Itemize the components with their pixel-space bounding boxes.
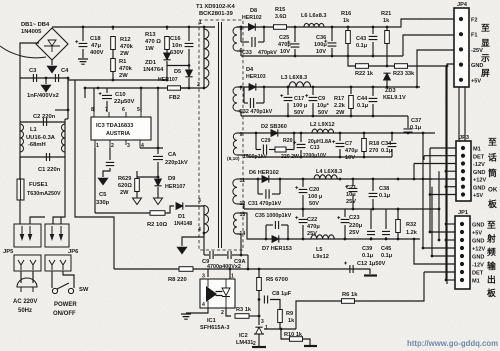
wire [140, 147, 163, 149]
wire [344, 225, 346, 239]
svg-text:0.1μ: 0.1μ [357, 103, 369, 109]
wire R1 bottom [112, 72, 114, 80]
wire [95, 212, 150, 214]
JP3 pin GND [461, 169, 465, 173]
svg-text:D6 HER102: D6 HER102 [249, 170, 279, 176]
wire pin7 [237, 86, 240, 88]
svg-text:1k: 1k [383, 18, 390, 24]
svg-text:0.1μ: 0.1μ [379, 193, 391, 199]
wire [248, 156, 392, 158]
svg-text:3: 3 [202, 274, 205, 280]
wire pin6 jog [237, 51, 241, 56]
wire [414, 239, 455, 264]
wire [258, 291, 260, 325]
wire [157, 187, 159, 198]
svg-text:屏: 屏 [481, 68, 490, 78]
wire C8 to R9 [270, 300, 280, 310]
wire [182, 233, 204, 246]
svg-text:(8,10): (8,10) [227, 156, 240, 162]
wire [84, 88, 86, 98]
svg-text:C23: C23 [349, 215, 360, 221]
JP6 lower socket [45, 255, 71, 271]
svg-text:R15: R15 [275, 7, 285, 13]
svg-text:25V: 25V [349, 230, 359, 236]
svg-text:DET: DET [472, 271, 484, 277]
wire [372, 42, 374, 56]
svg-text:C35 1000p1kV: C35 1000p1kV [255, 213, 292, 219]
wire [385, 237, 387, 239]
svg-text:2: 2 [111, 143, 114, 149]
svg-text:筒: 筒 [488, 167, 497, 178]
wire [422, 133, 424, 248]
wire [30, 217, 45, 224]
svg-text:FUSE1: FUSE1 [29, 182, 48, 188]
wire [52, 26, 215, 28]
svg-text:C1 220n: C1 220n [38, 167, 61, 173]
svg-text:HER107: HER107 [158, 77, 178, 83]
svg-text:470μ: 470μ [307, 224, 320, 230]
svg-text:470μ: 470μ [345, 148, 358, 154]
wire [352, 194, 354, 209]
svg-text:射: 射 [486, 233, 496, 244]
wire [265, 225, 267, 239]
svg-text:100 μ: 100 μ [308, 194, 323, 200]
svg-text:C29: C29 [261, 138, 271, 144]
svg-text:L9x12: L9x12 [313, 254, 329, 260]
diode D6 HER102 [262, 176, 269, 183]
secondary winding 13-14 [234, 213, 238, 234]
wire [240, 204, 244, 209]
wire R3 right [249, 315, 259, 317]
svg-text:+5V: +5V [471, 78, 481, 84]
wire [244, 208, 420, 210]
wire [445, 66, 447, 280]
svg-text:D7 HER153: D7 HER153 [262, 246, 292, 252]
wire [344, 209, 346, 217]
wire [240, 178, 432, 180]
primary spine [203, 27, 205, 88]
svg-text:1N4148: 1N4148 [174, 221, 192, 227]
svg-text:R21: R21 [381, 11, 391, 17]
wire [244, 102, 248, 104]
wire [45, 78, 47, 84]
svg-text:0.1μ: 0.1μ [381, 148, 393, 154]
IC3 pin stubs top [94, 112, 141, 117]
wire [302, 195, 304, 209]
IC1 photodiode [222, 288, 230, 296]
connector JP1 box [455, 216, 470, 289]
JP4 pin GND [459, 63, 463, 67]
wire [264, 328, 296, 330]
wire [287, 87, 289, 95]
svg-text:C7: C7 [345, 141, 352, 147]
svg-text:4: 4 [198, 227, 201, 233]
svg-text:330p: 330p [96, 200, 110, 206]
wire [51, 271, 53, 288]
svg-text:显: 显 [481, 38, 490, 48]
wire [272, 193, 280, 195]
wire [166, 50, 168, 53]
wire [446, 186, 456, 188]
wire [243, 87, 245, 103]
JP5 arrows [22, 226, 30, 238]
wire [263, 27, 265, 42]
JP3 pin DET [461, 154, 465, 158]
svg-text:IC2: IC2 [239, 333, 248, 339]
wire ZD1 bottom [166, 61, 168, 80]
JP3 pin +5V [461, 192, 465, 196]
svg-text:2: 2 [221, 310, 224, 316]
svg-text:6: 6 [122, 107, 125, 113]
svg-text:1.2k: 1.2k [406, 230, 418, 236]
svg-text:470 Ω: 470 Ω [145, 39, 161, 45]
wire [166, 27, 168, 30]
svg-text:2W: 2W [336, 110, 345, 116]
wire [363, 133, 365, 138]
svg-text:D9: D9 [168, 176, 176, 182]
svg-text:D5: D5 [174, 69, 181, 75]
svg-text:C18: C18 [90, 36, 101, 42]
JP4 pin F2 [459, 17, 463, 21]
secondary winding 7-None [233, 87, 237, 111]
svg-text:ZD1: ZD1 [145, 60, 157, 66]
wire [136, 191, 138, 198]
svg-text:50V: 50V [309, 201, 319, 207]
capacitor C8 1uF [264, 296, 267, 304]
svg-text:R12: R12 [120, 37, 131, 43]
svg-text:R629: R629 [118, 176, 131, 182]
svg-text:板: 板 [488, 198, 497, 209]
svg-text:SW: SW [79, 287, 89, 293]
wire [241, 115, 408, 117]
secondary winding 11-12 [233, 179, 237, 204]
wire [68, 79, 167, 81]
connector JP3 box [456, 141, 471, 201]
wire [279, 179, 281, 194]
resistor R2 10 [150, 211, 165, 216]
wire [446, 66, 448, 284]
resistor R10 1k [290, 337, 303, 342]
wire [181, 87, 205, 89]
svg-text:示: 示 [480, 53, 490, 63]
svg-text:DB1~ DB4: DB1~ DB4 [21, 22, 50, 28]
bridge rectifier DB1-DB4 [36, 28, 68, 60]
svg-text:C21: C21 [346, 185, 356, 191]
svg-text:BCK2801-39: BCK2801-39 [199, 11, 234, 17]
svg-text:LM431: LM431 [236, 340, 253, 346]
svg-text:JP3: JP3 [459, 135, 469, 141]
svg-text:KEL9.1V: KEL9.1V [383, 95, 406, 101]
svg-text:C20: C20 [309, 187, 319, 193]
svg-text:-12V: -12V [473, 162, 485, 168]
secondary winding 9-None [233, 133, 237, 155]
wire [300, 150, 302, 157]
svg-text:100 μ: 100 μ [293, 103, 308, 109]
wire [258, 193, 263, 195]
svg-text:630V: 630V [170, 50, 184, 56]
bridge diode symbol [44, 40, 60, 46]
svg-text:C9: C9 [318, 96, 325, 102]
inductor L6 [304, 23, 324, 27]
wire [350, 109, 352, 116]
wire [203, 233, 205, 255]
wire [240, 132, 435, 134]
wire [348, 56, 447, 66]
svg-text:D8: D8 [250, 8, 257, 14]
svg-text:1W: 1W [145, 46, 154, 52]
svg-text:25V: 25V [346, 199, 356, 205]
secondary winding 5-6 [233, 27, 237, 51]
wire [403, 35, 461, 56]
wire [64, 119, 66, 157]
svg-text:R23 33k: R23 33k [393, 71, 415, 77]
wire [20, 271, 22, 283]
wire [186, 308, 208, 313]
wire [414, 163, 456, 165]
svg-text:R9: R9 [286, 311, 293, 317]
svg-text:JP4: JP4 [457, 2, 468, 8]
wire pin13 [237, 212, 240, 214]
wire [458, 87, 460, 141]
capacitor C29 [263, 145, 266, 155]
wire [430, 147, 456, 149]
svg-text:输: 输 [487, 260, 496, 271]
wire [331, 48, 333, 56]
svg-text:R5 6700: R5 6700 [266, 277, 288, 283]
svg-text:470k: 470k [119, 66, 133, 72]
wire [281, 329, 289, 339]
svg-text:C38: C38 [379, 186, 389, 192]
svg-text:C32 470p1kV: C32 470p1kV [239, 109, 273, 115]
svg-text:+5V: +5V [473, 193, 483, 199]
svg-text:IC3 TDA16833: IC3 TDA16833 [96, 123, 133, 129]
ferrite bead FB2 [168, 86, 181, 90]
svg-text:10V: 10V [345, 155, 355, 161]
wire IC2 cathode... anode [258, 334, 260, 346]
wire [296, 301, 341, 329]
wire [300, 133, 302, 142]
wire [214, 254, 227, 256]
svg-text:1: 1 [231, 274, 234, 280]
wire [423, 247, 455, 249]
wire [137, 176, 158, 178]
svg-text:GND: GND [473, 185, 485, 191]
wire [136, 171, 138, 179]
ground D9 [154, 198, 163, 205]
wire [19, 200, 21, 224]
wire [240, 155, 248, 157]
svg-text:至: 至 [487, 220, 496, 230]
wire [257, 179, 259, 194]
wire [53, 157, 65, 224]
wire [372, 179, 374, 191]
svg-text:OK: OK [488, 187, 498, 194]
JP3 pin +12V [461, 177, 465, 181]
svg-text:2.2k: 2.2k [334, 103, 346, 109]
svg-text:C44: C44 [357, 96, 368, 102]
JP1 pin +5V [460, 230, 464, 234]
wire [417, 50, 461, 87]
wire [237, 111, 241, 116]
wire [94, 148, 96, 213]
wire [424, 271, 455, 273]
svg-text:C34: C34 [381, 141, 392, 147]
diode D4 HER103 [249, 84, 256, 91]
svg-text:板: 板 [487, 287, 496, 298]
svg-text:R8 220: R8 220 [168, 277, 187, 283]
wire [112, 27, 114, 30]
svg-text:3: 3 [198, 198, 201, 204]
ground C5 [98, 178, 108, 185]
wire [424, 155, 456, 157]
svg-text:F1: F1 [471, 33, 478, 39]
JP1 pin GND [460, 254, 464, 258]
svg-text:620Ω: 620Ω [118, 183, 132, 189]
wire [19, 157, 21, 179]
wire [269, 149, 276, 151]
JP1 pin GND [460, 238, 464, 242]
svg-text:UU16-0.3A: UU16-0.3A [26, 135, 56, 141]
svg-text:C4: C4 [61, 68, 69, 74]
svg-text:C10: C10 [115, 92, 126, 98]
svg-text:http://www.go-gddq.com: http://www.go-gddq.com [407, 339, 498, 348]
svg-text:R3 1k: R3 1k [236, 307, 252, 313]
svg-text:C25: C25 [279, 35, 289, 41]
wire [51, 60, 53, 65]
wire [303, 339, 311, 345]
ground IC1 [181, 314, 191, 319]
diode D8 HER102 [249, 24, 256, 31]
JP1 pin DET [460, 270, 464, 274]
wire [294, 49, 296, 56]
svg-text:HER107: HER107 [165, 184, 185, 190]
resistor R20 [275, 147, 286, 152]
wire [157, 88, 159, 148]
wire [232, 254, 248, 256]
wire [347, 44, 349, 56]
wire [391, 133, 393, 141]
wire [438, 171, 440, 240]
svg-text:至: 至 [481, 23, 490, 33]
svg-text:L6 L6x8.3: L6 L6x8.3 [301, 13, 327, 19]
wire [432, 255, 455, 257]
svg-text:2: 2 [253, 341, 256, 347]
JP1 pin M1 [460, 278, 464, 282]
svg-text:话: 话 [488, 152, 497, 163]
svg-text:JP6: JP6 [68, 249, 79, 255]
svg-text:5: 5 [137, 107, 140, 113]
svg-text:0.1μ: 0.1μ [381, 253, 393, 259]
svg-text:M1: M1 [473, 147, 481, 153]
wire [312, 87, 314, 95]
svg-text:HER102: HER102 [242, 15, 262, 21]
svg-text:1: 1 [199, 20, 202, 26]
JP4 pin -25V [459, 47, 463, 51]
resistor R8 220 [179, 267, 193, 272]
scan crease curve [0, 46, 46, 58]
svg-text:10V: 10V [316, 49, 326, 55]
wire [82, 49, 84, 58]
wire [247, 255, 249, 269]
svg-text:GND: GND [473, 170, 485, 176]
svg-text:R10 1k: R10 1k [284, 332, 303, 338]
IC1 light bars [216, 292, 223, 296]
JP6 arrows [52, 226, 61, 238]
wire [302, 209, 304, 217]
ground C3C4 [41, 85, 51, 92]
wire [204, 254, 209, 256]
svg-text:100μ: 100μ [314, 42, 327, 48]
wire [350, 87, 352, 94]
transformer dashed box [199, 20, 243, 250]
wire R6 to DET [355, 272, 425, 301]
svg-text:22μ50V: 22μ50V [114, 99, 134, 105]
wire [352, 179, 354, 186]
svg-text:L2 L9X12: L2 L9X12 [310, 122, 335, 128]
svg-text:C5: C5 [99, 192, 107, 198]
svg-text:C31 470p1kV: C31 470p1kV [248, 201, 282, 207]
svg-text:C12 1μ50V: C12 1μ50V [357, 261, 386, 267]
svg-text:R1: R1 [119, 59, 127, 65]
wire [397, 209, 399, 220]
svg-text:470pkV: 470pkV [258, 50, 277, 56]
wire [157, 162, 159, 177]
wire [294, 27, 296, 42]
wire [63, 271, 74, 288]
wire pin14 down [237, 234, 241, 255]
wire pin5 [237, 26, 241, 28]
JP3 pin M1 [461, 146, 465, 150]
svg-text:1nF/400Vx2: 1nF/400Vx2 [27, 93, 59, 99]
wire pin8,10 [237, 154, 240, 156]
wire [188, 49, 190, 66]
JP1 pin -12V [460, 262, 464, 266]
JP5 upper box with arrows [14, 224, 41, 247]
optocoupler IC1 box [200, 279, 235, 308]
wire [430, 194, 456, 196]
wire [372, 199, 374, 209]
svg-text:L5: L5 [316, 247, 323, 253]
svg-text:1k: 1k [343, 18, 350, 24]
IC3 pin stubs bottom [95, 140, 140, 148]
svg-text:50V: 50V [318, 110, 328, 116]
wire [447, 64, 461, 66]
resistor R22 1k [356, 64, 369, 69]
wire [67, 78, 69, 80]
wire [391, 149, 393, 157]
JP4 pin F1 [459, 32, 463, 36]
svg-text:M1: M1 [472, 279, 480, 285]
inductor L2 [312, 129, 334, 133]
svg-text:JP5: JP5 [3, 249, 14, 255]
wire [106, 101, 108, 112]
resistor R15 3.6 [274, 25, 287, 30]
wire [446, 223, 455, 225]
svg-text:0.1μ: 0.1μ [362, 253, 374, 259]
wire [203, 205, 205, 233]
wire [93, 88, 95, 112]
wire [339, 133, 341, 141]
wire [103, 168, 110, 177]
svg-text:IC1: IC1 [207, 318, 216, 324]
svg-text:T630mA250V: T630mA250V [27, 191, 61, 197]
wire [281, 224, 288, 226]
wire [20, 121, 65, 123]
wire pin12 [237, 203, 240, 205]
choke L1 right winding [62, 124, 65, 152]
svg-text:C39: C39 [362, 246, 372, 252]
svg-text:GND: GND [472, 223, 484, 229]
